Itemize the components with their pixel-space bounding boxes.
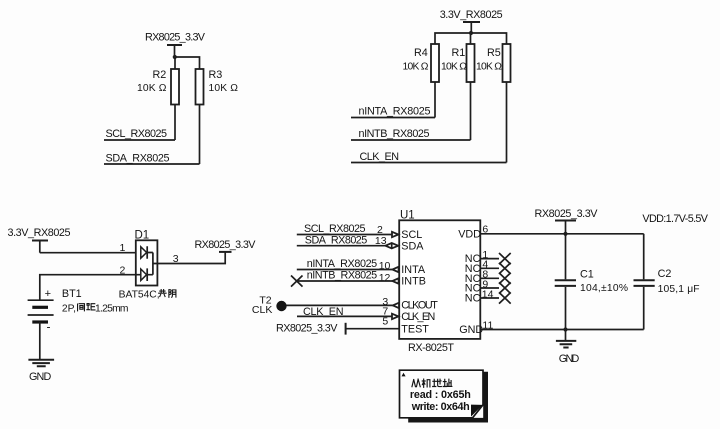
net label SDA_RX8025: [106, 153, 170, 165]
wire nINTB to U1 pin12: [297, 278, 399, 283]
wire D1 common cathode: [152, 253, 154, 275]
test point T2 label: [252, 294, 272, 316]
power label RX8025_3.3V (D1 output): [195, 239, 257, 251]
svg-text:SCL_RX8025: SCL_RX8025: [106, 128, 168, 140]
svg-text:RX8025_3.3V: RX8025_3.3V: [195, 239, 257, 251]
wire nINTA to U1 pin10: [297, 267, 399, 272]
svg-text:CLK_EN: CLK_EN: [401, 311, 435, 323]
power tap bar TEST: [345, 323, 347, 335]
wire VDD pin6 to rail: [480, 233, 643, 235]
net label CLK_EN (top): [360, 151, 400, 163]
svg-text:nINTB_RX8025: nINTB_RX8025: [359, 128, 430, 140]
net label CLK_EN (U1): [303, 306, 344, 318]
battery BT1: [28, 288, 54, 333]
note box corner marker: [402, 373, 406, 377]
svg-text:3.3V_RX8025: 3.3V_RX8025: [440, 9, 503, 21]
svg-text:R1: R1: [452, 47, 466, 59]
wire top rail R4-R1-R5: [435, 33, 507, 44]
label GND (C1): [559, 353, 580, 365]
power label 3.3V_RX8025 (top-right): [440, 9, 503, 21]
svg-text:nINTB_RX8025: nINTB_RX8025: [307, 269, 378, 281]
label BT1: [62, 288, 82, 300]
svg-text:R3: R3: [209, 69, 223, 81]
wire D1 pin3 to power: [153, 252, 225, 264]
U1 pin numbers left: [375, 224, 391, 328]
svg-text:SDA_RX8025: SDA_RX8025: [106, 153, 170, 165]
svg-text:RX-8025T: RX-8025T: [408, 342, 454, 354]
ground (C1): [556, 341, 576, 348]
test point T2 pad: [276, 301, 286, 311]
note text read 0x65h: [410, 389, 471, 401]
svg-text:CLKOUT: CLKOUT: [401, 299, 438, 311]
power label 3.3V_RX8025 (battery section): [8, 227, 71, 239]
capacitor C2: [634, 234, 700, 330]
power label RX8025_3.3V (C1): [535, 208, 599, 220]
ground (battery): [28, 360, 54, 367]
wire C1 to ground: [565, 330, 567, 341]
svg-text:2P,: 2P,: [62, 303, 76, 314]
svg-text:BT1: BT1: [62, 288, 82, 300]
wire R2 bottom lead: [174, 105, 176, 141]
net label nINTB_RX8025 (U1): [307, 269, 378, 281]
svg-text:SDA_RX8025: SDA_RX8025: [305, 234, 368, 246]
node junction R2/R3 top: [173, 55, 177, 59]
resistor R4: [403, 44, 440, 82]
net label SCL_RX8025: [106, 128, 168, 140]
svg-text:SCL_RX8025: SCL_RX8025: [304, 223, 366, 235]
wire D1 pin1: [40, 252, 141, 254]
node junction top rail: [469, 31, 473, 35]
IC U1 RX-8025T: [399, 210, 480, 339]
label BT1 value 2P pitch 1.25mm: [62, 303, 129, 314]
wire R1 bottom lead: [470, 82, 472, 140]
net label SCL_RX8025 (U1): [304, 223, 366, 235]
NC pin9 wire and X: [480, 282, 510, 293]
note box shadow: [408, 372, 488, 423]
wire SDA to U1 pin13: [297, 243, 398, 248]
node junction VDD rail: [563, 232, 567, 236]
svg-text:1.25mm: 1.25mm: [95, 303, 129, 314]
svg-text:RX8025_3.3V: RX8025_3.3V: [535, 208, 599, 220]
label GND (battery): [29, 371, 51, 383]
diode D1: [135, 229, 158, 285]
net label nINTA_RX8025 (U1): [307, 258, 378, 270]
svg-text:CLK: CLK: [252, 304, 272, 316]
svg-text:nINTA_RX8025: nINTA_RX8025: [359, 105, 431, 117]
power bar symbol RX8025_3.3V (D1 output): [219, 251, 232, 253]
pin 3 label: [173, 253, 179, 265]
svg-text:10K Ω: 10K Ω: [209, 83, 239, 94]
svg-text:C1: C1: [580, 269, 594, 281]
svg-text:RX8025_3.3V: RX8025_3.3V: [145, 32, 206, 44]
svg-text:104,±10%: 104,±10%: [580, 283, 628, 294]
wire SDA: [104, 163, 200, 165]
wire CLK_EN to U1 pin7: [297, 314, 398, 319]
svg-text:GND: GND: [559, 353, 580, 365]
svg-text:INTA: INTA: [401, 264, 426, 276]
wire SCL to U1 pin2: [297, 232, 399, 237]
wire CLK_EN top: [351, 162, 507, 164]
svg-text:SDA: SDA: [401, 241, 424, 253]
note box: [400, 370, 484, 418]
svg-text:INTB: INTB: [401, 276, 426, 288]
note text write 0x64h: [411, 401, 470, 413]
wire R3 bottom lead: [199, 105, 201, 165]
no-connect X on nINTB: [291, 276, 303, 287]
pin 1 label: [120, 242, 126, 254]
svg-text:C2: C2: [658, 268, 672, 280]
svg-text:TEST: TEST: [401, 323, 429, 335]
power bar symbol top-left: [167, 45, 182, 57]
svg-text:write: 0x64h: write: 0x64h: [411, 401, 470, 413]
wire D1 pin2: [40, 275, 141, 300]
svg-text:R4: R4: [414, 47, 428, 59]
svg-text:CLK_EN: CLK_EN: [360, 151, 400, 163]
svg-text:5: 5: [382, 316, 388, 328]
U1 pin names left: [401, 229, 438, 335]
svg-text:R5: R5: [487, 47, 501, 59]
svg-text:+: +: [45, 288, 51, 300]
pin 2 label: [120, 264, 126, 276]
label BAT54C common cathode: [119, 289, 176, 300]
wire R4 bottom lead: [434, 82, 436, 118]
svg-text:SCL: SCL: [401, 229, 422, 241]
wire R5 bottom lead: [506, 82, 508, 163]
U1 pin numbers right: [482, 223, 494, 331]
wire GND pin11 to C2: [480, 329, 643, 331]
svg-text:10K Ω: 10K Ω: [137, 83, 167, 94]
wire SCL: [104, 139, 175, 141]
power bar symbol battery section: [32, 241, 48, 253]
svg-text:VDD: VDD: [458, 228, 481, 240]
power label RX8025_3.3V (TEST pin): [276, 323, 338, 335]
svg-text:NC: NC: [465, 293, 481, 305]
NC pin1 wire and X: [480, 253, 510, 264]
NC pin4 wire and X: [480, 263, 510, 274]
NC pin8 wire and X: [480, 273, 510, 284]
svg-text:read : 0x65h: read : 0x65h: [410, 389, 471, 401]
power label RX8025_3.3V (top-left): [145, 32, 206, 44]
diode D1 top element: [141, 246, 153, 259]
wire battery to ground: [39, 322, 41, 360]
wire branch to R3: [175, 57, 200, 69]
U1 pin names right: [458, 228, 483, 336]
svg-text:VDD:1.7V-5.5V: VDD:1.7V-5.5V: [642, 213, 708, 225]
net label SDA_RX8025 (U1): [305, 234, 368, 246]
wire TEST to U1 pin5: [346, 328, 399, 330]
svg-text:-: -: [47, 320, 51, 334]
note box fold corner: [471, 405, 483, 417]
node junction GND rail: [563, 327, 567, 331]
resistor R3: [196, 69, 239, 105]
svg-text:GND: GND: [29, 371, 51, 383]
power bar symbol C1: [555, 221, 576, 234]
svg-text:GND: GND: [459, 324, 483, 336]
wire nINTB: [351, 139, 471, 141]
svg-text:R2: R2: [153, 69, 167, 81]
svg-text:12: 12: [379, 272, 391, 284]
label RX-8025T: [408, 342, 454, 354]
wire nINTA: [351, 117, 435, 119]
svg-text:10K Ω: 10K Ω: [403, 62, 429, 73]
NC pin14 wire and X: [480, 292, 510, 303]
power bar symbol top-right: [463, 22, 480, 33]
note text slave address (CJK): [412, 379, 452, 387]
svg-text:3.3V_RX8025: 3.3V_RX8025: [8, 227, 71, 239]
net label nINTB_RX8025: [359, 128, 430, 140]
svg-text:10K Ω: 10K Ω: [476, 62, 502, 73]
wire CLKOUT to U1 pin3: [286, 303, 399, 308]
svg-text:nINTA_RX8025: nINTA_RX8025: [307, 258, 378, 270]
resistor R5: [476, 44, 511, 82]
svg-text:10K Ω: 10K Ω: [441, 62, 467, 73]
svg-text:RX8025_3.3V: RX8025_3.3V: [276, 323, 338, 335]
diode D1 bottom element: [141, 268, 153, 281]
resistor R2: [137, 69, 179, 105]
capacitor C1: [555, 234, 628, 330]
wire R2 top lead: [174, 57, 176, 69]
net label nINTA_RX8025: [359, 105, 431, 117]
svg-text:105,1 μF: 105,1 μF: [658, 284, 700, 295]
label VDD:1.7V-5.5V: [642, 213, 708, 225]
resistor R1: [441, 44, 475, 82]
svg-text:BAT54C,: BAT54C,: [119, 289, 160, 300]
